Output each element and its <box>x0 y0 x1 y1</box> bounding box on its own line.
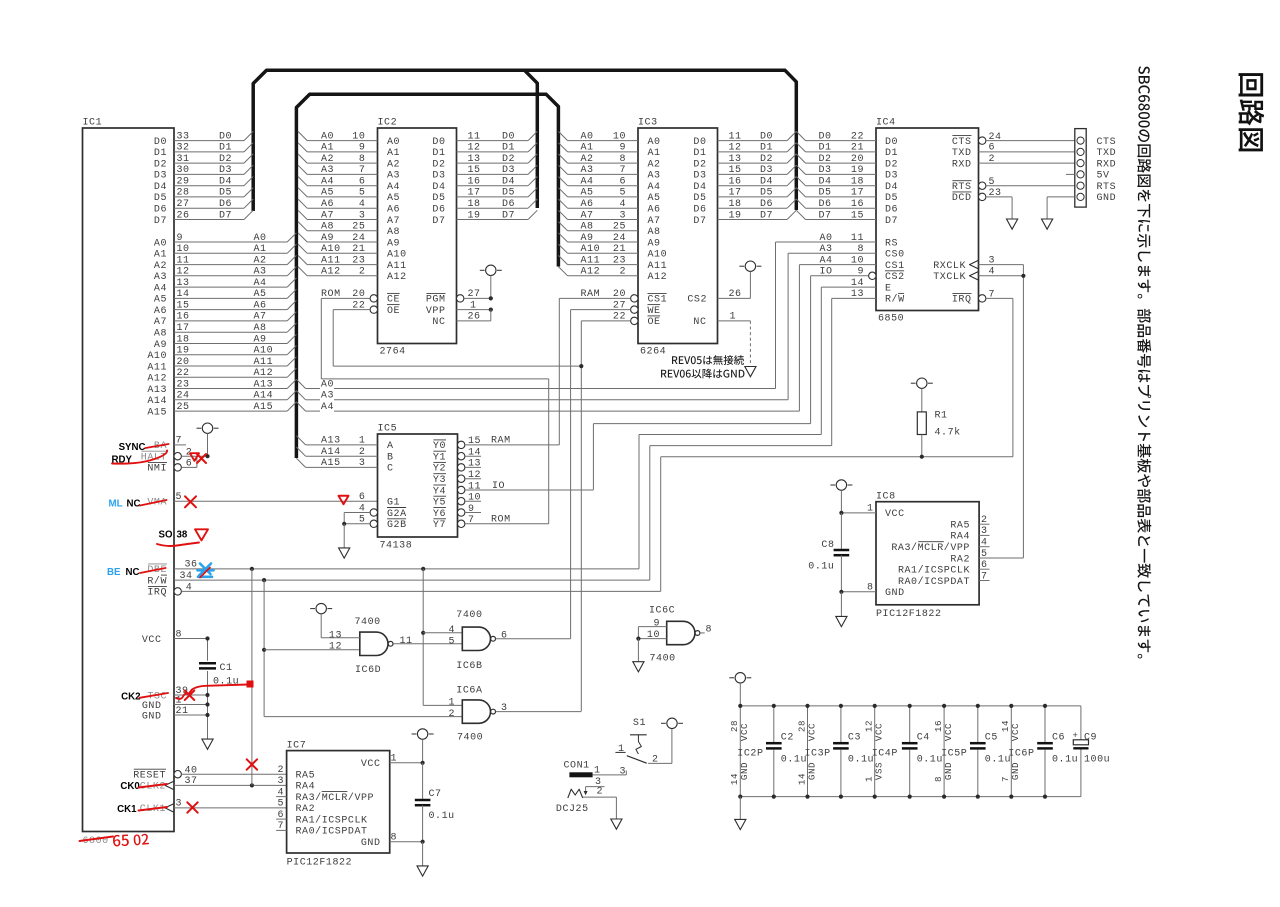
svg-text:Y4: Y4 <box>433 486 446 497</box>
IC2 pin 24 A9 / wire A9 <box>298 233 400 250</box>
IC4 pin 11 RS <box>776 233 899 250</box>
junction C7/GND <box>421 840 425 844</box>
svg-text:D4: D4 <box>819 177 832 188</box>
svg-text:GND: GND <box>885 588 905 599</box>
IC2 box (2764 EPROM) <box>378 118 457 358</box>
IC3 pin 15 D3 / wire D3 <box>693 165 796 182</box>
switch S1 <box>615 718 672 766</box>
connector pin CTS <box>1077 137 1116 148</box>
svg-text:A3: A3 <box>820 244 833 255</box>
ground (DCJ25) <box>611 819 622 829</box>
IC5 pin 12 Y3 stub <box>433 470 481 486</box>
svg-text:D1: D1 <box>432 148 445 159</box>
svg-text:D7: D7 <box>693 216 706 227</box>
annotation 6800 old label <box>83 836 109 847</box>
connector pin RXD <box>1077 159 1116 170</box>
svg-text:A8: A8 <box>321 222 334 233</box>
IC3 pin 2 A12 / wire A12 <box>558 267 667 284</box>
capacitor C4 0.1u <box>902 706 943 797</box>
IC1 pin 13 A4 / wire A4 <box>154 278 297 295</box>
capacitor C8 <box>808 513 849 592</box>
wire IC6D pin12 <box>264 649 360 651</box>
svg-text:2: 2 <box>277 765 284 776</box>
svg-text:A8: A8 <box>581 222 594 233</box>
svg-text:A1: A1 <box>321 143 334 154</box>
IC2 pin 8 A2 / wire A2 <box>298 154 400 171</box>
svg-text:RTS: RTS <box>952 182 972 193</box>
junction cap bank top <box>976 704 980 708</box>
svg-text:PGM: PGM <box>426 295 446 306</box>
junction GND21 <box>205 713 209 717</box>
svg-text:D6: D6 <box>885 205 898 216</box>
capacitor C2 0.1u <box>766 706 807 797</box>
IC2 pin 6 A4 / wire A4 <box>298 177 400 194</box>
nand gate IC6A <box>448 686 507 744</box>
svg-text:IC6A: IC6A <box>456 686 482 697</box>
IC7 pin 1 VCC <box>361 754 423 771</box>
wire WE from IC6B out <box>496 638 571 640</box>
IC1 pin 18 A9 / wire A9 <box>154 334 297 351</box>
IC5 pin 10 Y5 stub <box>433 493 481 509</box>
annotation ML <box>109 499 123 510</box>
svg-text:D7: D7 <box>154 216 167 227</box>
svg-text:C5: C5 <box>985 733 998 744</box>
svg-text:5: 5 <box>989 177 996 188</box>
svg-text:A4: A4 <box>648 182 661 193</box>
VCC symbol (cap bank) <box>729 673 751 706</box>
svg-text:3: 3 <box>277 776 284 787</box>
svg-text:A0: A0 <box>387 137 400 148</box>
svg-text:A7: A7 <box>581 210 594 221</box>
IC5 pin 4 G2A <box>344 503 406 524</box>
svg-text:A6: A6 <box>254 300 267 311</box>
svg-text:VCC: VCC <box>874 723 885 741</box>
svg-text:9: 9 <box>653 619 660 630</box>
IC5 box (74138 decoder) <box>378 424 458 552</box>
wire A3/CS0 net <box>296 253 788 401</box>
svg-text:Y3: Y3 <box>433 475 446 486</box>
annotation red tri SO <box>195 529 208 540</box>
IC4 pin 15 D7 / wire D7 <box>796 210 898 227</box>
junction BE/IC6B.4 <box>421 631 425 635</box>
svg-text:A8: A8 <box>154 329 167 340</box>
IC1 pin 15 A6 / wire A6 <box>154 300 297 317</box>
svg-text:A4: A4 <box>820 255 833 266</box>
junction cap bank top <box>805 704 809 708</box>
IC1 pin 37 CLK2 (CK0) / wire CK0 to IC7 <box>140 776 287 793</box>
IC power pin IC5P <box>933 706 967 797</box>
svg-text:A4: A4 <box>387 182 400 193</box>
junction cap bank bottom <box>942 795 946 799</box>
svg-text:A1: A1 <box>154 250 167 261</box>
IC4 pin 3 RXCLK / wire RXCLK <box>933 255 1023 275</box>
wire R/W net to IC4 <box>650 298 832 580</box>
svg-text:A9: A9 <box>254 334 267 345</box>
IC3 pin 19 D7 / wire D7 <box>693 210 796 227</box>
svg-text:GND: GND <box>361 838 381 849</box>
svg-text:0.1u: 0.1u <box>917 755 943 766</box>
svg-text:VCC: VCC <box>739 723 750 741</box>
svg-text:D2: D2 <box>432 159 445 170</box>
VCC symbol (RDY pull-up) <box>197 423 219 456</box>
svg-text:A4: A4 <box>581 177 594 188</box>
wire IRQ vertical <box>660 457 662 592</box>
bus D (IC1 data bus) <box>253 70 796 211</box>
svg-text:A15: A15 <box>147 407 167 418</box>
junction C8/GND <box>839 590 843 594</box>
svg-text:A4: A4 <box>254 278 267 289</box>
svg-text:CK0: CK0 <box>120 781 139 792</box>
svg-text:NC: NC <box>693 317 706 328</box>
svg-text:D3: D3 <box>219 165 232 176</box>
annotation strike CLK1 <box>139 807 168 811</box>
ground (connector GND) <box>1042 219 1053 229</box>
svg-text:Y1: Y1 <box>433 453 446 464</box>
svg-text:D1: D1 <box>502 143 515 154</box>
svg-text:D5: D5 <box>154 193 167 204</box>
junction IC6C inputs <box>636 637 640 641</box>
ground (IC3 NC option) <box>745 367 756 377</box>
svg-text:D0: D0 <box>819 131 832 142</box>
svg-text:D6: D6 <box>219 199 232 210</box>
svg-text:D4: D4 <box>502 177 515 188</box>
svg-text:B: B <box>387 453 394 464</box>
svg-text:D2: D2 <box>885 159 898 170</box>
IC8 box (PIC12F1822) <box>876 492 979 621</box>
IC4 pin 24 CTS / wire CTS <box>952 132 1075 148</box>
IC1 pin 32 D1 / wire D1 <box>154 143 253 160</box>
IC3 pin 20 CS1 / wire RAM <box>559 289 667 306</box>
IC4 pin 23 DCD / wire DCD <box>952 188 1012 219</box>
svg-text:CS1: CS1 <box>885 261 905 272</box>
nand gate IC6D <box>329 617 413 676</box>
ground (C7) <box>417 842 428 876</box>
svg-text:IRQ: IRQ <box>147 588 167 599</box>
wire VCC rail <box>740 705 1081 707</box>
nand gate IC6C <box>647 606 712 665</box>
IC8 pin 2 RA5 <box>950 515 989 532</box>
svg-text:11: 11 <box>468 481 481 492</box>
svg-text:GND: GND <box>142 711 162 722</box>
svg-text:IC3P: IC3P <box>805 749 831 760</box>
svg-text:A2: A2 <box>648 159 661 170</box>
junction cap bank top <box>873 704 877 708</box>
svg-text:NMI: NMI <box>147 464 167 475</box>
IC1 pin 6 NMI <box>147 456 197 475</box>
junction TXCLK <box>1021 274 1025 278</box>
svg-text:D2: D2 <box>154 159 167 170</box>
svg-text:VCC: VCC <box>142 635 162 646</box>
svg-text:0.1u: 0.1u <box>781 755 807 766</box>
IC2 pin 26 NC <box>432 310 490 329</box>
svg-text:CE: CE <box>387 295 400 306</box>
svg-text:IO: IO <box>492 481 505 492</box>
ground (C8) <box>836 592 847 627</box>
IC5 pin 11 Y4 / wire IO <box>433 481 594 498</box>
svg-text:IC5P: IC5P <box>941 749 967 760</box>
IC4 pin 18 D4 / wire D4 <box>796 177 898 194</box>
VCC symbol (C7) <box>412 729 434 763</box>
svg-text:IC1: IC1 <box>83 118 103 129</box>
IC8 pin 7 RA0/ICSPDAT <box>898 571 990 588</box>
svg-text:D3: D3 <box>502 165 515 176</box>
svg-text:RXCLK: RXCLK <box>933 261 966 272</box>
annotation X on TSC wire <box>185 691 195 701</box>
svg-text:D2: D2 <box>502 154 515 165</box>
svg-text:RESET: RESET <box>133 771 166 782</box>
ground C1 <box>202 729 213 749</box>
svg-text:RA5: RA5 <box>950 521 970 532</box>
VCC symbol (S1) <box>661 718 683 728</box>
connector pin GND <box>1047 193 1116 219</box>
svg-text:A1: A1 <box>387 148 400 159</box>
annotation RDY <box>112 455 133 466</box>
svg-text:A12: A12 <box>581 267 601 278</box>
svg-text:D3: D3 <box>693 171 706 182</box>
IC3 pin 3 A7 / wire A7 <box>558 210 660 227</box>
svg-text:A1: A1 <box>254 244 267 255</box>
svg-text:A14: A14 <box>321 447 341 458</box>
annotation NC (ML) <box>127 499 141 510</box>
svg-text:A0: A0 <box>648 137 661 148</box>
junction TSC <box>205 693 209 697</box>
svg-text:74138: 74138 <box>380 541 413 552</box>
junction CK0/phi2 <box>250 783 254 787</box>
IC1 pin 27 D6 / wire D6 <box>154 199 253 216</box>
IC3 pin 18 D6 / wire D6 <box>693 199 796 216</box>
capacitor C9 100u (electrolytic) <box>1073 706 1111 797</box>
svg-text:A11: A11 <box>581 255 601 266</box>
svg-text:A12: A12 <box>254 368 274 379</box>
svg-text:CON1: CON1 <box>564 761 590 772</box>
IC5 pin 9 Y6 stub <box>433 504 481 520</box>
svg-text:RAM: RAM <box>491 436 511 447</box>
svg-text:C7: C7 <box>429 789 442 800</box>
svg-text:D6: D6 <box>154 205 167 216</box>
svg-text:A12: A12 <box>648 272 668 283</box>
IC3 pin 6 A4 / wire A4 <box>558 177 660 194</box>
svg-text:A2: A2 <box>154 261 167 272</box>
svg-text:OE: OE <box>648 317 661 328</box>
IC2 pin 4 A6 / wire A6 <box>298 199 400 216</box>
svg-text:0.1u: 0.1u <box>848 755 874 766</box>
svg-text:Y7: Y7 <box>433 520 446 531</box>
svg-text:12: 12 <box>329 642 342 653</box>
svg-text:IO: IO <box>820 267 833 278</box>
svg-text:D7: D7 <box>885 216 898 227</box>
svg-text:D0: D0 <box>219 131 232 142</box>
IC7 pin 5 RA2 <box>277 799 315 816</box>
IC1 pin 7 BA (SYNC) <box>154 436 186 453</box>
svg-text:D6: D6 <box>502 199 515 210</box>
svg-text:D0: D0 <box>693 137 706 148</box>
svg-text:A0: A0 <box>581 131 594 142</box>
IC3 pin 11 D0 / wire D0 <box>693 131 796 148</box>
svg-text:7400: 7400 <box>650 654 676 665</box>
svg-text:GND: GND <box>739 762 750 780</box>
svg-text:D4: D4 <box>693 182 706 193</box>
svg-text:D7: D7 <box>219 210 232 221</box>
svg-text:PIC12F1822: PIC12F1822 <box>876 609 942 620</box>
IC4 pin 5 RTS / wire RTS <box>952 177 1075 193</box>
svg-text:IC8: IC8 <box>876 492 896 503</box>
svg-text:RA0/ICSPDAT: RA0/ICSPDAT <box>898 576 970 588</box>
annotation red underline SO <box>157 543 199 547</box>
svg-text:14: 14 <box>468 448 481 459</box>
IC8 pin 6 RA1/ICSPCLK <box>898 560 990 577</box>
annotation red tri on G1 wire <box>339 496 349 505</box>
svg-text:A15: A15 <box>321 458 341 469</box>
svg-text:D1: D1 <box>885 148 898 159</box>
IC2 pin 9 A1 / wire A1 <box>298 143 400 160</box>
junction cap bank bottom <box>1009 795 1013 799</box>
svg-text:A6: A6 <box>321 199 334 210</box>
IC1 pin 3 CLK1 (CK1) / wire CK1 to IC7 <box>140 799 287 816</box>
svg-text:A7: A7 <box>321 210 334 221</box>
svg-text:A6: A6 <box>387 205 400 216</box>
svg-text:D2: D2 <box>693 159 706 170</box>
svg-text:A3: A3 <box>581 165 594 176</box>
IC7 pin 6 RA1/ICSPCLK <box>276 810 367 827</box>
svg-text:A3: A3 <box>154 272 167 283</box>
IC5 pin 5 G2B <box>344 515 406 532</box>
svg-text:Y2: Y2 <box>433 464 446 475</box>
IC2 pin 16 D4 / wire D4 <box>432 177 537 194</box>
svg-text:C3: C3 <box>848 733 861 744</box>
ground (cap bank) <box>735 797 746 830</box>
svg-text:A3: A3 <box>387 171 400 182</box>
IC1 pin 40 RESET / wire RESET to IC7 <box>133 766 286 782</box>
svg-text:G2A: G2A <box>387 509 407 520</box>
annotation SYNC <box>119 442 146 453</box>
connector J1 box <box>1075 129 1086 208</box>
IC3 pin 5 A5 / wire A5 <box>558 188 660 205</box>
ground (IC6C inputs) <box>633 639 644 672</box>
svg-text:R/W: R/W <box>885 294 905 306</box>
svg-text:GND: GND <box>1097 193 1117 204</box>
IC4 pin 4 TXCLK / wire TXCLK to IC8 RA2 <box>933 267 1023 558</box>
connector pin TXD <box>1077 148 1116 159</box>
svg-text:A11: A11 <box>147 362 167 373</box>
svg-text:1: 1 <box>618 744 625 755</box>
annotation strike BA <box>146 444 169 448</box>
svg-text:A10: A10 <box>321 244 341 255</box>
IC1 box <box>83 118 175 832</box>
annotation strike CLK2 <box>139 784 168 788</box>
junction cap bank bottom <box>976 795 980 799</box>
wire VCC to C1 <box>207 639 209 661</box>
junction cap bank bottom <box>839 795 843 799</box>
IC1 pin 2 HALT (RDY) <box>141 448 208 464</box>
annotation strike DBE <box>140 568 166 573</box>
ground (DCD) <box>1007 219 1018 229</box>
svg-text:A8: A8 <box>648 227 661 238</box>
svg-text:CS0: CS0 <box>885 250 905 261</box>
IC7 pin 7 RA0/ICSPDAT <box>276 821 367 838</box>
IC1 pin 39 TSC (CK2) <box>147 686 207 703</box>
svg-text:40: 40 <box>185 766 198 777</box>
IC3 pin 7 A3 / wire A3 <box>558 165 660 182</box>
wire A4/CS1 net <box>296 265 799 413</box>
wire IO net <box>593 276 810 490</box>
svg-text:RA3/MCLR/VPP: RA3/MCLR/VPP <box>296 792 375 804</box>
svg-text:9: 9 <box>468 504 475 515</box>
svg-text:A9: A9 <box>321 233 334 244</box>
junction C7/VCC <box>421 761 425 765</box>
IC1 pin 10 A1 / wire A1 <box>154 244 297 261</box>
IC7 pin 8 GND <box>361 833 423 850</box>
svg-text:C2: C2 <box>781 733 794 744</box>
IC2 pin 5 A5 / wire A5 <box>298 188 400 205</box>
svg-text:A0: A0 <box>321 379 334 390</box>
svg-text:A10: A10 <box>581 244 601 255</box>
junction cap bank top <box>1043 704 1047 708</box>
svg-text:D5: D5 <box>885 193 898 204</box>
svg-text:A2: A2 <box>321 154 334 165</box>
wire GND rail <box>740 796 1081 798</box>
svg-text:6264: 6264 <box>640 347 666 358</box>
svg-text:D6: D6 <box>693 205 706 216</box>
IC1 pin 31 D2 / wire D2 <box>154 154 253 171</box>
svg-text:D0: D0 <box>154 137 167 148</box>
svg-text:D5: D5 <box>760 188 773 199</box>
junction cap bank bottom <box>908 795 912 799</box>
svg-text:A12: A12 <box>147 374 167 385</box>
svg-text:A10: A10 <box>254 346 274 357</box>
junction VPP/VCC <box>489 308 493 312</box>
svg-text:GND: GND <box>943 762 954 780</box>
svg-text:RA5: RA5 <box>296 770 316 781</box>
svg-text:IC2: IC2 <box>378 118 398 129</box>
svg-text:RA4: RA4 <box>950 532 970 543</box>
annotation blue scribble <box>198 564 214 578</box>
capacitor C5 0.1u <box>970 706 1011 797</box>
IC4 box (6850 ACIA) <box>876 118 979 325</box>
svg-text:A5: A5 <box>648 193 661 204</box>
annotation strike VMA <box>140 500 167 506</box>
junction R/W/IC6D.12 <box>262 648 266 652</box>
svg-text:BE: BE <box>107 567 121 578</box>
bus A (IC1 address bus) <box>296 94 558 458</box>
svg-text:TXCLK: TXCLK <box>933 272 966 283</box>
IC1 pin 17 A8 / wire A8 <box>154 323 297 340</box>
junction cap bank top <box>942 704 946 708</box>
svg-text:A4: A4 <box>154 283 167 294</box>
svg-text:D5: D5 <box>219 188 232 199</box>
svg-text:D4: D4 <box>885 182 898 193</box>
svg-text:RA3/MCLR/VPP: RA3/MCLR/VPP <box>891 542 970 554</box>
svg-text:VCC: VCC <box>1010 723 1021 741</box>
wire OE from IC6A out <box>496 711 582 713</box>
svg-text:D3: D3 <box>432 171 445 182</box>
wire IC6C input tie <box>638 627 666 639</box>
svg-text:A12: A12 <box>321 267 341 278</box>
svg-text:Y5: Y5 <box>433 498 446 509</box>
junction cap bank top <box>772 704 776 708</box>
svg-text:RA1/ICSPCLK: RA1/ICSPCLK <box>898 565 970 577</box>
svg-text:A8: A8 <box>254 323 267 334</box>
svg-text:CK2: CK2 <box>121 691 140 702</box>
svg-text:D3: D3 <box>819 165 832 176</box>
annotation strike TSC <box>140 693 169 698</box>
ground (IC5 G2) <box>339 524 350 558</box>
IC1 pin 21 GND <box>142 706 208 723</box>
IC2 pin 20 CE / wire ROM <box>321 289 549 379</box>
svg-text:D5: D5 <box>693 193 706 204</box>
annotation strike HALT + curve <box>112 451 167 464</box>
IC5 pin 7 Y7 / wire ROM <box>433 379 549 531</box>
IC1 pin 11 A2 / wire A2 <box>154 255 297 272</box>
